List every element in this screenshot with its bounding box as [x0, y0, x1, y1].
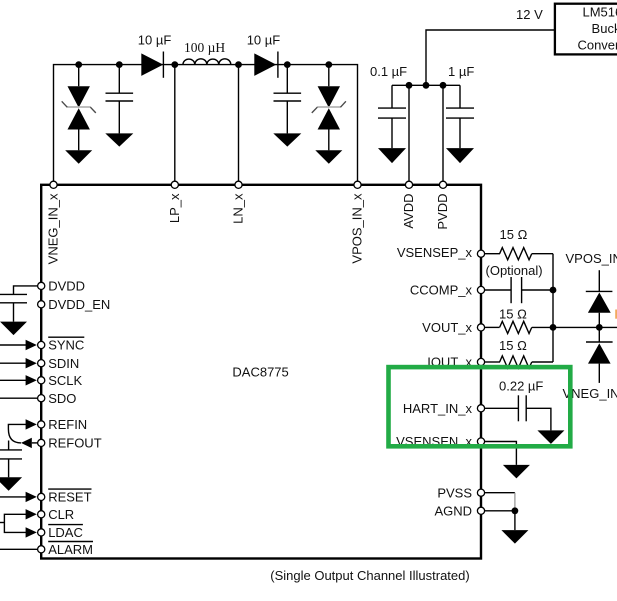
node TVS D6 on top rail	[325, 61, 332, 68]
svg-text:10 µF: 10 µF	[138, 33, 172, 48]
arrow LDAC	[26, 527, 37, 537]
svg-text:12 V: 12 V	[516, 7, 543, 22]
pin HART_IN_x	[477, 405, 484, 412]
svg-text:HART_IN_x: HART_IN_x	[403, 401, 473, 416]
svg-text:ALARM: ALARM	[48, 542, 93, 557]
svg-text:DVDD: DVDD	[48, 279, 85, 294]
capacitor C8 0.22uF HART	[485, 395, 551, 430]
node TVS D5 on top rail	[75, 61, 82, 68]
wire PVDD vertical	[442, 85, 444, 185]
node 12V feed on supply rail	[423, 82, 430, 89]
node C2 on top rail	[284, 61, 291, 68]
svg-text:100 µH: 100 µH	[184, 40, 225, 55]
pin ALARM	[38, 546, 45, 553]
ground for C3	[378, 148, 406, 163]
pin RESET	[38, 493, 45, 500]
svg-text:REFOUT: REFOUT	[48, 436, 101, 451]
diode D4 clamp to VNEG_IN	[586, 327, 613, 383]
ground for C1	[105, 133, 133, 146]
pin LDAC	[38, 529, 45, 536]
wire PVSS to AGND gray	[514, 493, 516, 511]
chip DAC8775 body	[41, 185, 481, 559]
wire ALARM	[0, 548, 38, 550]
wire AGND	[485, 510, 515, 512]
ground for C8	[537, 430, 564, 444]
pin VOUT_x	[477, 324, 484, 331]
TVS D5 bidirectional zener	[62, 65, 96, 151]
orange mark at right edge	[615, 310, 617, 319]
capacitor C3 0.1uF	[378, 85, 406, 148]
wire SCLK input	[0, 379, 27, 381]
node PVDD on supply rail	[440, 82, 447, 89]
pin DVDD_EN	[38, 301, 45, 308]
svg-text:LM5160: LM5160	[583, 5, 617, 20]
TVS D6 bidirectional zener	[312, 65, 346, 151]
wire CLR LDAC bracket	[4, 514, 27, 532]
arrow SYNC	[26, 340, 37, 350]
svg-text:VSENSEP_x: VSENSEP_x	[397, 245, 473, 260]
svg-text:SYNC: SYNC	[48, 338, 84, 353]
node CCOMP junction	[550, 287, 557, 294]
svg-text:PVDD: PVDD	[435, 194, 450, 230]
svg-text:15 Ω: 15 Ω	[499, 338, 527, 353]
svg-text:15 Ω: 15 Ω	[500, 227, 528, 242]
ground for C5	[0, 322, 27, 336]
wire SYNC input	[0, 344, 27, 346]
capacitor C5 on DVDD	[0, 286, 38, 322]
ground for AGND	[501, 530, 528, 544]
svg-text:PVSS: PVSS	[437, 485, 472, 500]
node diode junction	[596, 324, 603, 331]
svg-text:0.1 µF: 0.1 µF	[370, 64, 407, 79]
wire top rail VNEG_IN to VPOS_IN	[54, 65, 358, 185]
svg-text:VPOS_IN_x: VPOS_IN_x	[566, 251, 617, 266]
svg-text:CCOMP_x: CCOMP_x	[410, 283, 473, 298]
pin PVDD	[439, 181, 446, 188]
pin VNEG_IN_x	[50, 181, 57, 188]
pin SDIN	[38, 360, 45, 367]
svg-text:Buck: Buck	[592, 21, 617, 36]
svg-text:SCLK: SCLK	[48, 373, 82, 388]
svg-text:LDAC: LDAC	[48, 525, 83, 540]
svg-text:VPOS_IN_x: VPOS_IN_x	[350, 193, 365, 264]
capacitor C6 on REFOUT	[0, 441, 22, 478]
pin SYNC	[38, 341, 45, 348]
arrow SCLK	[26, 375, 37, 385]
node LP_x on top rail	[171, 61, 178, 68]
green highlight box	[389, 367, 571, 446]
node C1 on top rail	[116, 61, 123, 68]
wire SDO output	[0, 397, 38, 399]
wire VSENSEN to ground	[485, 442, 517, 465]
svg-text:CLR: CLR	[48, 507, 74, 522]
pin AVDD	[405, 181, 412, 188]
svg-text:(Optional): (Optional)	[486, 263, 543, 278]
arrow REFIN	[26, 419, 37, 429]
svg-text:10 µF: 10 µF	[247, 33, 281, 48]
resistor R2 15ohm VOUT	[485, 321, 617, 333]
svg-text:(Single Output Channel Illustr: (Single Output Channel Illustrated)	[270, 568, 469, 583]
wire LN_x vertical	[238, 65, 240, 185]
ground for C4	[446, 148, 474, 163]
diode D1	[141, 52, 163, 78]
wire AVDD PVDD rail	[392, 84, 460, 86]
svg-text:DVDD_EN: DVDD_EN	[48, 297, 110, 312]
pin LP_x	[171, 181, 178, 188]
ground for TVS D6	[315, 150, 342, 163]
diode D3 clamp to VPOS_IN	[586, 270, 613, 327]
svg-text:VOUT_x: VOUT_x	[422, 320, 472, 335]
wire AVDD vertical	[408, 85, 410, 185]
wire RESET input	[0, 496, 27, 498]
LM5160 buck converter box	[555, 4, 617, 55]
wire REFOUT	[32, 442, 38, 444]
ground for C6	[0, 477, 22, 491]
pin SDO	[38, 395, 45, 402]
wire REFIN with feedback arc from REFOUT	[8, 424, 26, 443]
svg-text:SDIN: SDIN	[48, 356, 79, 371]
svg-text:REFIN: REFIN	[48, 417, 87, 432]
pin REFOUT	[38, 439, 45, 446]
svg-text:LP_x: LP_x	[167, 193, 182, 223]
pin IOUT_x	[477, 358, 484, 365]
wire right bus vertical	[552, 254, 554, 362]
wire AGND to ground	[514, 511, 516, 530]
pin CLR	[38, 511, 45, 518]
svg-text:DAC8775: DAC8775	[232, 365, 288, 380]
pin LN_x	[235, 181, 242, 188]
arrow CLR	[26, 509, 37, 519]
svg-text:AVDD: AVDD	[401, 194, 416, 229]
svg-text:15 Ω: 15 Ω	[499, 307, 527, 322]
node LN_x on top rail	[235, 61, 242, 68]
pin REFIN	[38, 421, 45, 428]
svg-text:LN_x: LN_x	[231, 193, 246, 224]
ground for TVS D5	[65, 150, 92, 163]
wire SDIN input	[0, 362, 27, 364]
arrow RESET	[26, 492, 37, 502]
capacitor C7 CCOMP	[485, 277, 553, 303]
wire PVSS	[485, 492, 515, 494]
node VOUT junction	[550, 324, 557, 331]
pin AGND	[477, 507, 484, 514]
resistor R3 15ohm IOUT	[485, 356, 553, 368]
pin PVSS	[477, 489, 484, 496]
arrow SDIN	[26, 358, 37, 368]
capacitor C1	[106, 65, 134, 134]
resistor R1 15ohm VSENSEP	[485, 248, 553, 260]
pin VSENSEP_x	[477, 250, 484, 257]
pin DVDD	[38, 282, 45, 289]
pin VSENSEN_x	[477, 438, 484, 445]
arrow REFOUT pointing left	[21, 438, 32, 448]
pin CCOMP_x	[477, 286, 484, 293]
svg-text:1 µF: 1 µF	[448, 64, 474, 79]
pin VPOS_IN_x	[354, 181, 361, 188]
svg-text:VNEG_IN_x: VNEG_IN_x	[46, 193, 61, 264]
capacitor C4 1uF	[446, 85, 474, 148]
svg-text:AGND: AGND	[434, 503, 472, 518]
inductor L1 100uH	[183, 59, 231, 65]
capacitor C2	[274, 65, 302, 134]
svg-text:Converter: Converter	[577, 38, 617, 53]
svg-text:SDO: SDO	[48, 391, 76, 406]
pin SCLK	[38, 377, 45, 384]
ground for VSENSEN	[503, 465, 530, 479]
svg-text:RESET: RESET	[48, 490, 91, 505]
wire 12V from LM5160	[426, 30, 555, 85]
ground for C2	[273, 133, 301, 146]
svg-text:0.22 µF: 0.22 µF	[499, 378, 543, 393]
node AGND junction	[512, 507, 519, 514]
diode D2	[254, 52, 278, 78]
node AVDD on supply rail	[406, 82, 413, 89]
wire LP_x vertical	[174, 65, 176, 185]
